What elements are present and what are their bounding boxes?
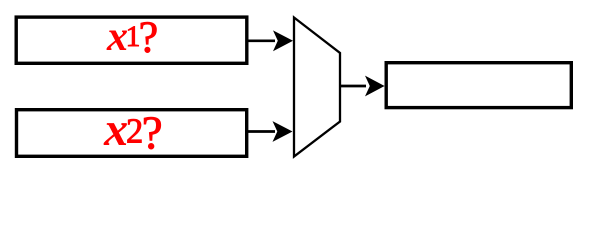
wire from x2 box to mux [248, 121, 293, 142]
svg-text:x: x [103, 103, 128, 156]
wire from x1 box to mux [248, 30, 293, 51]
wire from mux to output box [341, 76, 385, 97]
svg-text:?: ? [139, 13, 159, 62]
label x2? [103, 103, 162, 159]
svg-text:?: ? [142, 107, 163, 159]
input box X1 [16, 17, 247, 63]
input box X2 [17, 110, 247, 157]
mux funnel [294, 18, 340, 157]
output box [386, 63, 571, 108]
svg-text:2: 2 [126, 113, 143, 151]
label x1? [106, 13, 158, 62]
